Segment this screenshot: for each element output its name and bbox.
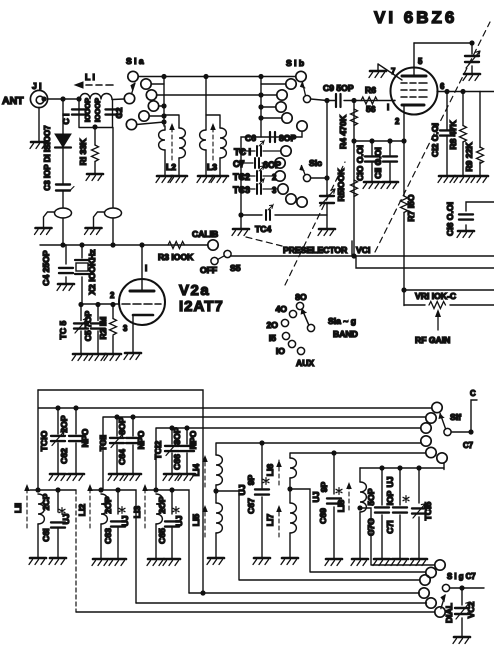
svg-text:VC2: VC2 — [466, 601, 476, 618]
svg-text:LI6: LI6 — [265, 464, 275, 477]
svg-text:9P: 9P — [319, 481, 329, 492]
svg-text:2OP: 2OP — [59, 415, 69, 432]
svg-text:C64: C64 — [117, 449, 127, 465]
svg-text:SIa ~ g: SIa ~ g — [328, 316, 356, 326]
svg-text:VI 6BZ6: VI 6BZ6 — [374, 8, 457, 27]
svg-text:LI4: LI4 — [191, 464, 201, 477]
svg-text:I2AT7: I2AT7 — [179, 298, 224, 315]
svg-text:CIO O.OI: CIO O.OI — [355, 145, 365, 181]
svg-text:C7I: C7I — [385, 520, 395, 533]
svg-text:C67: C67 — [246, 498, 256, 514]
svg-text:SIc: SIc — [309, 158, 322, 168]
svg-text:56: 56 — [366, 104, 376, 114]
svg-text:L2: L2 — [166, 162, 176, 172]
svg-text:8OP: 8OP — [279, 133, 296, 143]
svg-text:C63: C63 — [103, 528, 113, 544]
svg-text:UJ: UJ — [311, 491, 321, 502]
svg-text:NPO: NPO — [188, 430, 198, 449]
svg-text:R8 47K: R8 47K — [448, 120, 458, 150]
svg-text:TC I: TC I — [234, 147, 251, 157]
svg-text:I: I — [145, 264, 147, 273]
svg-text:TCII: TCII — [98, 435, 108, 451]
svg-text:SIf: SIf — [450, 412, 461, 422]
svg-text:C7O: C7O — [366, 518, 376, 536]
svg-text:5: 5 — [418, 57, 423, 66]
svg-text:CI2 O.OI: CI2 O.OI — [430, 123, 440, 157]
svg-text:9P: 9P — [246, 474, 256, 485]
svg-text:8OP: 8OP — [117, 417, 127, 434]
svg-text:2O: 2O — [267, 320, 279, 330]
svg-text:6: 6 — [440, 82, 445, 91]
svg-text:5OP: 5OP — [366, 488, 376, 505]
svg-text:TC4: TC4 — [255, 224, 271, 234]
svg-text:2: 2 — [110, 291, 115, 300]
svg-text:PRESELECTOR: PRESELECTOR — [283, 245, 348, 255]
svg-text:CALIB: CALIB — [192, 229, 218, 239]
svg-text:UJ: UJ — [237, 484, 247, 495]
svg-text:BAND: BAND — [333, 329, 358, 339]
svg-text:C3 IOP DI ISIOO7: C3 IOP DI ISIOO7 — [43, 125, 52, 191]
svg-text:IOP: IOP — [385, 490, 395, 505]
svg-text:UJ: UJ — [174, 515, 184, 526]
svg-text:C7: C7 — [463, 441, 473, 450]
svg-text:R4 470K: R4 470K — [338, 114, 348, 149]
svg-text:DIAL: DIAL — [444, 603, 454, 623]
svg-text:RF GAIN: RF GAIN — [415, 335, 450, 345]
svg-text:2OP: 2OP — [157, 496, 167, 513]
svg-text:UJ: UJ — [61, 513, 71, 524]
svg-text:S I g C7: S I g C7 — [447, 572, 476, 581]
svg-text:S5: S5 — [230, 263, 241, 273]
svg-text:TC2: TC2 — [233, 172, 250, 182]
svg-text:LI5: LI5 — [191, 514, 201, 527]
svg-text:2OP: 2OP — [103, 496, 113, 513]
svg-text:R5IOOK: R5IOOK — [336, 168, 346, 202]
svg-text:L3: L3 — [207, 162, 217, 172]
svg-text:TCIO: TCIO — [39, 430, 49, 451]
svg-text:ANT: ANT — [2, 95, 24, 107]
svg-text:TCI2: TCI2 — [153, 440, 163, 459]
svg-text:S I b: S I b — [286, 58, 304, 68]
svg-text:I5: I5 — [269, 333, 276, 343]
svg-text:C2: C2 — [114, 107, 124, 118]
svg-text:TC3: TC3 — [233, 185, 250, 195]
svg-text:C65: C65 — [157, 528, 167, 544]
svg-text:VRI IOK-C: VRI IOK-C — [415, 291, 456, 301]
svg-text:CI6 O.OI: CI6 O.OI — [445, 202, 455, 236]
svg-text:C6: C6 — [245, 133, 256, 143]
svg-text:LII: LII — [13, 503, 23, 513]
svg-text:C: C — [470, 389, 476, 398]
svg-text:C69: C69 — [318, 508, 328, 524]
svg-text:C62: C62 — [59, 448, 69, 464]
svg-text:J I: J I — [32, 81, 42, 91]
svg-text:IO: IO — [276, 346, 285, 356]
svg-text:R3 IOOK: R3 IOOK — [158, 252, 194, 262]
svg-text:2: 2 — [395, 117, 400, 126]
svg-text:X2 IOOKHz: X2 IOOKHz — [87, 249, 97, 294]
svg-text:R2 IM: R2 IM — [98, 317, 108, 340]
svg-text:2CP: 2CP — [41, 493, 51, 510]
svg-text:LI3: LI3 — [132, 506, 142, 519]
svg-text:C6I: C6I — [41, 528, 51, 541]
svg-text:S I a: S I a — [126, 56, 144, 66]
svg-text:C5 7OP: C5 7OP — [83, 310, 93, 341]
svg-text:C66: C66 — [172, 454, 182, 470]
svg-text:8O: 8O — [295, 292, 307, 302]
svg-text:RI 33K: RI 33K — [78, 138, 88, 166]
svg-text:R7 I5O: R7 I5O — [406, 194, 416, 222]
svg-text:OFF: OFF — [200, 265, 217, 275]
svg-text:NPO: NPO — [136, 430, 146, 449]
svg-text:I: I — [387, 103, 389, 112]
svg-text:VCI: VCI — [356, 245, 370, 255]
svg-text:LI8: LI8 — [336, 500, 346, 513]
svg-text:IOOOP: IOOOP — [93, 98, 102, 122]
svg-text:3: 3 — [123, 324, 128, 333]
svg-text:L I: L I — [85, 72, 95, 82]
svg-text:3OP: 3OP — [172, 427, 182, 444]
svg-text:R9 22K: R9 22K — [464, 142, 474, 172]
svg-text:TC 5: TC 5 — [58, 320, 68, 339]
svg-text:R6: R6 — [365, 85, 376, 95]
svg-text:V2a: V2a — [179, 282, 210, 299]
svg-text:C7: C7 — [233, 159, 245, 169]
svg-text:LI2: LI2 — [77, 504, 87, 517]
svg-text:UJ: UJ — [120, 515, 130, 526]
svg-text:UJ: UJ — [385, 476, 395, 487]
svg-text:C4 25OP: C4 25OP — [41, 250, 51, 286]
svg-text:TCI5: TCI5 — [423, 501, 433, 520]
svg-text:4O: 4O — [276, 304, 288, 314]
svg-text:IOOOP: IOOOP — [83, 98, 92, 122]
svg-text:C9 5OP: C9 5OP — [323, 83, 354, 93]
svg-text:NPO: NPO — [80, 428, 90, 447]
svg-text:LI7: LI7 — [265, 514, 275, 527]
svg-text:AUX: AUX — [296, 358, 314, 368]
svg-text:3: 3 — [272, 186, 277, 195]
svg-text:CII O.OI: CII O.OI — [373, 147, 383, 179]
